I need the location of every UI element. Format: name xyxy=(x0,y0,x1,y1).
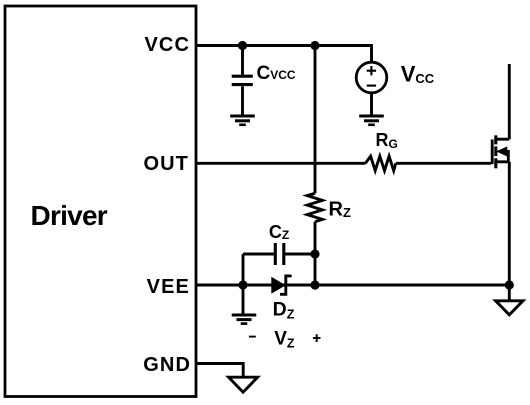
svg-text:VEE: VEE xyxy=(147,276,190,298)
svg-text:CVCC: CVCC xyxy=(257,63,296,84)
svg-text:DZ: DZ xyxy=(273,298,295,321)
svg-text:VZ: VZ xyxy=(274,329,295,351)
svg-text:VCC: VCC xyxy=(144,34,190,56)
svg-text:CZ: CZ xyxy=(269,222,289,242)
svg-text:OUT: OUT xyxy=(143,153,189,175)
svg-text:GND: GND xyxy=(143,354,191,376)
svg-text:Driver: Driver xyxy=(31,200,108,231)
svg-text:RZ: RZ xyxy=(329,199,351,221)
svg-text:VCC: VCC xyxy=(401,62,435,87)
svg-text:RG: RG xyxy=(376,130,398,151)
